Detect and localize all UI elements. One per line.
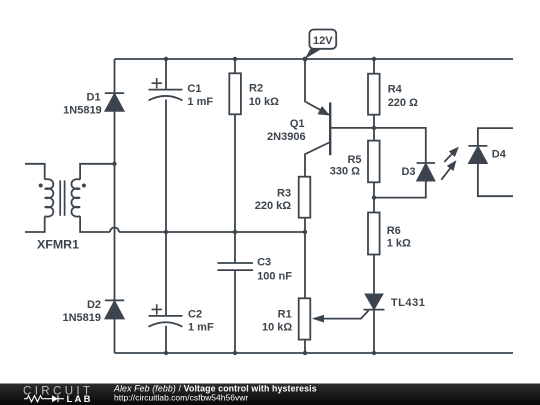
svg-text:D3: D3 xyxy=(401,166,415,178)
wire R5 bottom lead to node D xyxy=(373,182,375,197)
svg-text:D1: D1 xyxy=(87,91,101,103)
wire C2 top lead xyxy=(165,232,167,316)
wire bottom rail xyxy=(115,352,514,354)
svg-text:http://circuitlab.com/csfbw54h: http://circuitlab.com/csfbw54h56vwr xyxy=(114,393,248,403)
diode D1 1N5819 xyxy=(105,93,124,111)
footer logo diode xyxy=(52,395,58,402)
svg-text:R6: R6 xyxy=(387,225,401,237)
transistor Q1 2N3906 xyxy=(318,102,330,155)
svg-text:12V: 12V xyxy=(313,35,333,47)
svg-text:C3: C3 xyxy=(257,257,271,269)
wire C2 bottom lead xyxy=(165,326,167,353)
svg-text:R3: R3 xyxy=(277,188,291,200)
svg-text:330 Ω: 330 Ω xyxy=(330,165,360,177)
svg-text:Q1: Q1 xyxy=(290,118,305,130)
svg-text:D4: D4 xyxy=(492,149,507,161)
wire D4 bottom lead xyxy=(478,164,513,197)
capacitor C3 xyxy=(217,263,253,270)
transformer XFMR1 primary winding xyxy=(45,179,54,217)
svg-text:C1: C1 xyxy=(187,83,201,95)
transformer XFMR1 phase dots xyxy=(39,184,86,188)
wire D2 to bottom rail xyxy=(114,319,116,353)
svg-text:2N3906: 2N3906 xyxy=(267,131,306,143)
wire R4 bottom lead to node C xyxy=(373,115,375,128)
light arrows from D3 to D4 xyxy=(441,148,458,180)
svg-text:100 nF: 100 nF xyxy=(257,271,292,283)
wire Q1 base to node C xyxy=(330,127,374,129)
wire C3 bottom lead xyxy=(234,270,236,353)
resistor R5 xyxy=(368,141,380,183)
wire C3 top lead xyxy=(234,232,236,263)
TL431 U1 xyxy=(364,294,385,310)
svg-text:LAB: LAB xyxy=(67,394,93,405)
wire Q1 emitter from 12V node xyxy=(305,59,330,115)
svg-text:R1: R1 xyxy=(278,308,292,320)
node 12V flag xyxy=(305,30,336,60)
svg-text:R5: R5 xyxy=(347,154,361,166)
wire D3 bottom lead to node D xyxy=(374,181,426,198)
capacitor C1 xyxy=(149,78,183,100)
wire R1 top lead xyxy=(304,232,306,298)
wire mid rail to node B xyxy=(119,231,305,233)
resistor R4 xyxy=(368,74,380,115)
wire XFMR1 secondary top to node A xyxy=(80,164,114,180)
svg-text:220 kΩ: 220 kΩ xyxy=(255,200,292,212)
wire R2 bottom lead xyxy=(234,114,236,232)
wire TL431 cathode to bottom rail xyxy=(373,310,375,353)
svg-text:C2: C2 xyxy=(188,309,202,321)
svg-text:1N5819: 1N5819 xyxy=(62,312,101,324)
R1 wiper arrow xyxy=(312,315,324,323)
svg-text:10 kΩ: 10 kΩ xyxy=(249,96,279,108)
wire R2 top lead xyxy=(234,59,236,73)
svg-text:R2: R2 xyxy=(249,83,263,95)
wire C1 top lead xyxy=(165,59,167,90)
wire R6 top lead xyxy=(373,198,375,213)
transformer XFMR1 secondary winding xyxy=(71,179,80,217)
capacitor C2 xyxy=(149,304,183,327)
diode D2 1N5819 xyxy=(105,300,124,319)
svg-text:10 kΩ: 10 kΩ xyxy=(262,321,292,333)
svg-text:TL431: TL431 xyxy=(391,297,426,309)
svg-text:220 Ω: 220 Ω xyxy=(388,97,418,109)
wire R5 top lead xyxy=(373,128,375,141)
svg-text:1 mF: 1 mF xyxy=(187,96,213,108)
wire C1 bottom lead xyxy=(165,100,167,233)
wire TL431 ref pin to R1 wiper xyxy=(320,311,369,319)
wire R6 bottom to TL431 xyxy=(373,255,375,294)
resistor R1 xyxy=(299,298,311,339)
svg-text:1 kΩ: 1 kΩ xyxy=(387,238,411,250)
wire R3 bottom to node B xyxy=(304,218,306,232)
svg-text:D2: D2 xyxy=(87,299,101,311)
resistor R6 xyxy=(368,213,380,255)
wire XFMR1 primary bottom terminal xyxy=(25,216,45,232)
wire XFMR1 primary top terminal xyxy=(25,164,45,180)
wire XFMR1 secondary bottom lead xyxy=(80,216,110,232)
wire D4 top lead xyxy=(478,128,513,146)
wire left branch top (rail to D1) xyxy=(114,59,116,93)
LED D3 xyxy=(417,163,435,181)
wire D1 to D2 through node A xyxy=(114,111,116,300)
photodiode D4 xyxy=(468,146,487,164)
footer bar xyxy=(0,384,540,405)
wire R4 top lead xyxy=(373,59,375,74)
wire D3 top lead from node C xyxy=(374,128,426,163)
resistor R2 xyxy=(229,73,241,114)
svg-text:1N5819: 1N5819 xyxy=(63,105,102,117)
wire Q1 collector to R3 xyxy=(305,142,330,177)
svg-text:1 mF: 1 mF xyxy=(188,322,214,334)
wire hop over left branch xyxy=(110,228,119,233)
transformer XFMR1 core xyxy=(60,180,64,215)
svg-text:R4: R4 xyxy=(388,84,403,96)
resistor R3 xyxy=(299,177,311,218)
wire R1 bottom lead xyxy=(304,340,306,353)
wire top rail xyxy=(115,58,514,60)
footer logo squiggle xyxy=(24,395,64,402)
svg-text:XFMR1: XFMR1 xyxy=(37,238,79,252)
